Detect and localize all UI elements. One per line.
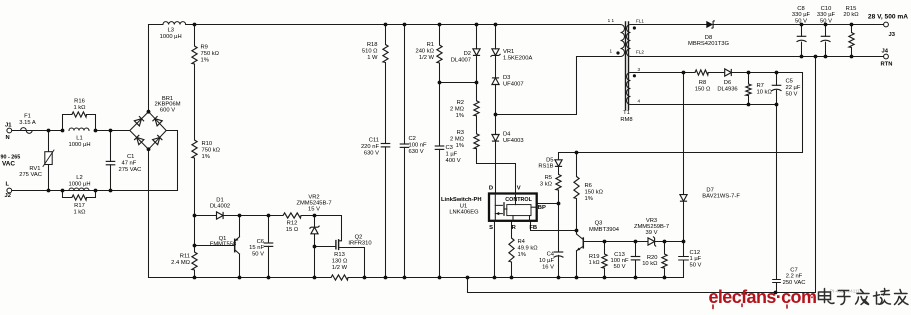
svg-text:C3: C3 [446, 145, 453, 151]
svg-text:C4: C4 [547, 252, 555, 258]
svg-text:3 kΩ: 3 kΩ [540, 182, 553, 188]
svg-text:150 kΩ: 150 kΩ [585, 190, 604, 196]
svg-text:FB: FB [529, 225, 537, 231]
svg-text:BAV21WS-7-F: BAV21WS-7-F [702, 194, 740, 200]
svg-text:C6: C6 [257, 239, 264, 245]
svg-text:R16: R16 [74, 99, 85, 105]
svg-text:1 kΩ: 1 kΩ [589, 260, 600, 266]
svg-text:R3: R3 [457, 130, 464, 136]
svg-text:DL4007: DL4007 [451, 58, 471, 64]
svg-text:FMMT558: FMMT558 [210, 241, 236, 247]
svg-text:R19: R19 [589, 254, 600, 260]
svg-text:D7: D7 [706, 188, 713, 194]
svg-text:C8: C8 [797, 6, 804, 12]
svg-text:240 kΩ: 240 kΩ [415, 49, 434, 55]
svg-text:1 kΩ: 1 kΩ [73, 105, 86, 111]
svg-text:1 kΩ: 1 kΩ [73, 210, 86, 216]
svg-text:50 V: 50 V [690, 262, 702, 268]
svg-text:IRFR310: IRFR310 [348, 240, 371, 246]
svg-text:50 V: 50 V [252, 252, 264, 258]
svg-text:C1: C1 [127, 154, 134, 160]
svg-text:100 nF: 100 nF [409, 143, 428, 149]
svg-text:C12: C12 [690, 250, 701, 256]
svg-text:S: S [489, 225, 493, 231]
svg-text:220 nF: 220 nF [361, 144, 380, 150]
svg-text:C7: C7 [790, 268, 797, 274]
svg-text:UF4003: UF4003 [503, 138, 524, 144]
svg-text:47 nF: 47 nF [122, 161, 137, 167]
svg-text:275 VAC: 275 VAC [19, 172, 42, 178]
svg-text:R9: R9 [201, 45, 208, 51]
svg-text:1 1: 1 1 [608, 18, 615, 23]
svg-text:UF4007: UF4007 [503, 82, 524, 88]
svg-text:3: 3 [638, 67, 641, 72]
svg-text:R2: R2 [457, 100, 464, 106]
svg-text:330 µF: 330 µF [792, 12, 811, 18]
svg-text:D8: D8 [705, 35, 712, 41]
svg-text:BP: BP [538, 205, 546, 211]
svg-text:elecfans·com: elecfans·com [709, 287, 817, 307]
svg-text:R1: R1 [427, 42, 434, 48]
svg-text:3.15 A: 3.15 A [19, 120, 36, 126]
svg-text:D4: D4 [503, 132, 511, 138]
svg-text:330 µF: 330 µF [817, 12, 836, 18]
svg-text:1%: 1% [456, 113, 464, 119]
svg-text:1 W: 1 W [367, 55, 378, 61]
svg-text:R11: R11 [180, 254, 190, 260]
svg-text:RS1B: RS1B [538, 164, 553, 170]
svg-text:630 V: 630 V [409, 149, 424, 155]
svg-text:VAC: VAC [2, 161, 15, 168]
svg-text:R5: R5 [545, 175, 552, 181]
svg-text:FL2: FL2 [636, 50, 644, 55]
svg-text:510 Ω: 510 Ω [362, 49, 378, 55]
svg-text:15 Ω: 15 Ω [286, 227, 299, 233]
svg-text:RTN: RTN [881, 62, 893, 68]
svg-text:1000 µH: 1000 µH [160, 34, 182, 40]
svg-text:VR1: VR1 [503, 49, 514, 55]
svg-text:D6: D6 [724, 80, 731, 86]
svg-text:CONTROL: CONTROL [505, 197, 532, 203]
svg-text:10 µF: 10 µF [539, 258, 554, 264]
svg-text:D3: D3 [503, 75, 510, 81]
svg-text:275 VAC: 275 VAC [119, 167, 142, 173]
svg-text:V: V [517, 186, 521, 192]
svg-text:DL4002: DL4002 [210, 204, 230, 210]
svg-text:C5: C5 [786, 79, 793, 85]
svg-text:R17: R17 [74, 203, 85, 209]
svg-text:C13: C13 [614, 252, 625, 258]
svg-text:C11: C11 [369, 138, 379, 144]
svg-text:50 V: 50 V [614, 264, 626, 270]
svg-text:L3: L3 [167, 28, 173, 34]
svg-text:750 kΩ: 750 kΩ [202, 148, 221, 154]
svg-text:J4: J4 [882, 49, 889, 55]
svg-text:MBRS4201T3G: MBRS4201T3G [688, 41, 729, 47]
svg-text:10 kΩ: 10 kΩ [642, 261, 658, 267]
svg-text:R13: R13 [334, 252, 345, 258]
svg-text:R20: R20 [647, 255, 658, 261]
svg-text:1%: 1% [456, 143, 464, 149]
svg-text:1000 µH: 1000 µH [68, 142, 90, 148]
svg-text:LinkSwitch-PH: LinkSwitch-PH [441, 197, 482, 203]
svg-text:1%: 1% [585, 196, 593, 202]
svg-text:D2: D2 [464, 51, 471, 57]
svg-text:D: D [489, 186, 493, 192]
svg-text:L1: L1 [76, 136, 82, 142]
svg-text:R10: R10 [202, 141, 213, 147]
svg-text:150 Ω: 150 Ω [695, 87, 711, 93]
svg-text:50 V: 50 V [820, 18, 832, 24]
svg-text:16 V: 16 V [542, 265, 554, 271]
svg-text:C2: C2 [409, 136, 416, 142]
svg-text:R6: R6 [585, 183, 592, 189]
svg-text:28 V, 500 mA: 28 V, 500 mA [868, 14, 908, 21]
svg-text:1%: 1% [518, 252, 526, 258]
svg-text:F1: F1 [24, 114, 31, 120]
svg-text:100 nF: 100 nF [610, 258, 629, 264]
svg-text:2 MΩ: 2 MΩ [450, 137, 465, 143]
svg-text:20 kΩ: 20 kΩ [843, 12, 859, 18]
svg-text:600 V: 600 V [160, 107, 175, 113]
svg-text:15 nF: 15 nF [249, 245, 264, 251]
svg-text:L2: L2 [76, 175, 82, 181]
svg-text:400 V: 400 V [446, 158, 461, 164]
svg-text:4: 4 [638, 99, 641, 104]
svg-text:FL1: FL1 [636, 19, 644, 24]
svg-text:130 Ω: 130 Ω [332, 259, 348, 265]
svg-text:250 VAC: 250 VAC [783, 280, 806, 286]
svg-text:1: 1 [609, 49, 612, 54]
svg-text:MMBT3904: MMBT3904 [589, 227, 620, 233]
svg-text:J1: J1 [5, 123, 12, 129]
svg-text:22 µF: 22 µF [786, 85, 801, 91]
svg-text:1000 µH: 1000 µH [68, 182, 90, 188]
svg-text:1/2 W: 1/2 W [419, 55, 435, 61]
svg-text:1%: 1% [201, 58, 209, 64]
svg-text:1%: 1% [202, 154, 210, 160]
svg-text:L: L [6, 182, 10, 188]
svg-text:C10: C10 [821, 6, 832, 12]
svg-text:49.9 kΩ: 49.9 kΩ [518, 246, 539, 252]
svg-text:630 V: 630 V [364, 151, 379, 157]
svg-text:15 V: 15 V [308, 207, 320, 213]
svg-text:10 kΩ: 10 kΩ [757, 90, 773, 96]
svg-text:39 V: 39 V [646, 230, 658, 236]
svg-text:T1: T1 [623, 110, 630, 116]
svg-text:J2: J2 [5, 193, 11, 199]
svg-text:750 kΩ: 750 kΩ [201, 51, 220, 57]
svg-text:DL4936: DL4936 [717, 87, 737, 93]
svg-text:1.5KE200A: 1.5KE200A [503, 56, 532, 62]
svg-text:1 µF: 1 µF [690, 256, 702, 262]
svg-text:R12: R12 [287, 221, 298, 227]
svg-text:J3: J3 [889, 32, 896, 38]
svg-text:2.4 MΩ: 2.4 MΩ [171, 260, 190, 266]
svg-text:R7: R7 [757, 83, 764, 89]
svg-text:LNK406EG: LNK406EG [449, 210, 479, 216]
svg-text:50 V: 50 V [795, 18, 807, 24]
svg-text:R8: R8 [699, 80, 706, 86]
svg-text:R15: R15 [846, 6, 857, 12]
svg-text:RM8: RM8 [620, 117, 632, 123]
svg-text:R4: R4 [518, 239, 526, 245]
svg-text:Q3: Q3 [595, 221, 603, 227]
svg-text:2 MΩ: 2 MΩ [450, 107, 465, 113]
svg-text:1/2 W: 1/2 W [332, 265, 348, 271]
svg-text:50 V: 50 V [786, 92, 798, 98]
svg-text:N: N [6, 135, 10, 141]
svg-text:2.2 nF: 2.2 nF [786, 274, 803, 280]
svg-text:R18: R18 [367, 42, 378, 48]
svg-text:1 µF: 1 µF [446, 152, 458, 158]
